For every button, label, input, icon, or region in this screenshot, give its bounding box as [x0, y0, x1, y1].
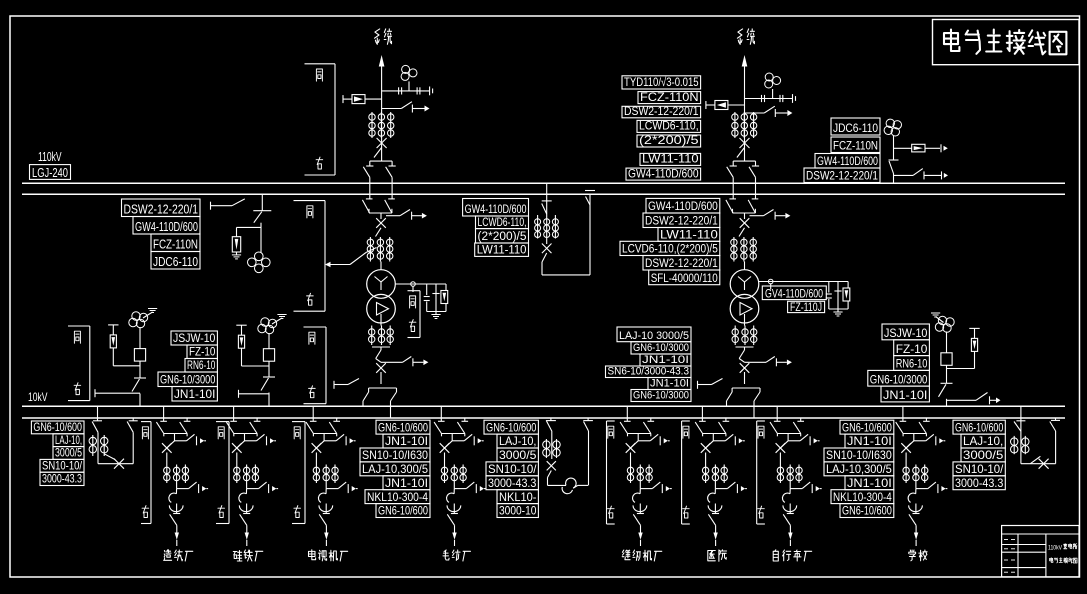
svg-text:JSJW-10: JSJW-10	[173, 331, 216, 345]
feeder yiyuan: breaker	[701, 441, 714, 465]
svg-text:LCVD6-110,(2*200)/5: LCVD6-110,(2*200)/5	[622, 242, 718, 256]
feeder dianshijichang: label dianshijichang	[309, 550, 316, 560]
svg-text:DSW2-12-220/1: DSW2-12-220/1	[645, 214, 718, 228]
feeder guitiechang: CTs 3x2	[234, 465, 240, 484]
feeder zixingchechang: label zixingchechang	[773, 550, 778, 561]
feeder guitiechang: outgoing arrow	[245, 533, 249, 547]
PT10-1: windings	[129, 312, 148, 328]
svg-text:GN6-10/600: GN6-10/600	[378, 504, 428, 518]
svg-text:3000-10: 3000-10	[499, 504, 537, 518]
PT10-1: surge arrester	[108, 325, 140, 366]
feeder zixingchechang: earthing switch 2	[789, 483, 791, 489]
left coupler CTs	[89, 435, 96, 456]
T1: delta winding	[367, 294, 396, 323]
feeder zixingchechang: outgoing arrow	[788, 533, 792, 547]
middle coupler right leg	[583, 418, 593, 485]
feeder bay dianshijichang: bus disconnectors	[306, 406, 340, 436]
right 110kV PT earthing switch	[894, 169, 949, 180]
disconnector blade	[374, 148, 382, 158]
bracket 同右 (left incoming bay)	[305, 64, 336, 175]
svg-text:DSW2-12-220/1: DSW2-12-220/1	[124, 202, 199, 217]
maintenance earthing switch	[745, 106, 793, 117]
feeder fengrenjichang: cable termination	[633, 489, 647, 514]
feeder yiyuan: earthing switch 1	[713, 434, 745, 445]
label 系统	[375, 29, 380, 44]
title block tiny row texts	[1004, 540, 1015, 573]
feeder fengrenjichang: link	[637, 434, 639, 441]
left 110kV PT windings	[248, 252, 271, 273]
T1: 110kV breaker	[376, 218, 386, 228]
feeder zixingchechang: breaker	[776, 441, 789, 465]
left 110kV PT bay (x262)	[253, 194, 271, 253]
T2: delta winding	[730, 294, 759, 323]
svg-text:LAJ-10,300/5: LAJ-10,300/5	[826, 462, 892, 476]
bypass link arrow (to left)	[325, 248, 377, 268]
feeder maofangchang: breaker	[440, 441, 453, 465]
feeder bay zaozhichang: bus disconnectors	[156, 406, 190, 436]
svg-text:LW11-110: LW11-110	[642, 152, 699, 166]
feeder guitiechang: link	[244, 434, 246, 441]
svg-text:NKL10-300-4: NKL10-300-4	[833, 490, 892, 504]
svg-text:3000-43.3: 3000-43.3	[955, 476, 1004, 490]
PT10-1: fuse	[134, 327, 145, 378]
svg-text:GW4-110D/600: GW4-110D/600	[648, 199, 718, 213]
T2: 110kV CTs 3x3	[731, 237, 737, 262]
feeder zixingchechang: earthing switch 1	[788, 434, 820, 445]
T2: 10kV bus selector disconnectors	[727, 372, 761, 418]
middle coupler cable terminations	[562, 478, 588, 494]
feeder dianshijichang: outgoing disconnector	[319, 514, 326, 532]
bus sectionalizer breaker	[542, 239, 552, 275]
svg-text:GN6-10/3000: GN6-10/3000	[633, 390, 689, 402]
middle coupler breaker	[547, 461, 566, 485]
T2: terminal bar	[736, 346, 754, 348]
T1: 10kV disconnector and breaker	[376, 347, 381, 362]
label stack LAJ-10 (right transformer 10kV side)	[606, 327, 692, 402]
110kV bus sectionalizer: left leg	[542, 183, 552, 215]
label box FZ-110J (right transformer)	[788, 301, 825, 314]
svg-text:SN10-10/: SN10-10/	[42, 458, 83, 472]
svg-text:110kV: 110kV	[1048, 545, 1063, 552]
svg-text:SN6-10/3000-43.3: SN6-10/3000-43.3	[608, 366, 690, 378]
feeder zaozhichang: label zaozhichang	[164, 550, 172, 561]
bracket 同右 (feeder 自行车厂)	[757, 421, 765, 524]
T2: earthing switch right	[745, 210, 791, 220]
T2: 10kV CTs 3x2	[732, 326, 738, 346]
feeder maofangchang: cable termination	[447, 489, 461, 514]
feeder zixingchechang: CTs 3x2	[777, 465, 783, 484]
feeder fengrenjichang: breaker	[626, 441, 639, 465]
label 系统	[737, 29, 742, 44]
current transformers 3x3	[732, 112, 738, 138]
system incoming arrow	[379, 55, 385, 67]
label stack JSJW-10 (right 10kV PT)	[868, 324, 930, 402]
T2: 110kV breaker	[740, 218, 750, 228]
T1: 10kV bus selector disconnectors	[363, 372, 397, 418]
feeder dianshijichang: CTs 3x2	[313, 465, 319, 484]
svg-text:GN6-10/3000: GN6-10/3000	[633, 342, 689, 354]
T2: star winding	[730, 270, 759, 299]
feeder maofangchang: link	[451, 434, 453, 441]
label stack TYD110 (right incoming line)	[622, 75, 701, 180]
disconnector blade	[737, 148, 745, 158]
svg-text:FCZ-110N: FCZ-110N	[153, 237, 198, 252]
line PT winding cluster	[765, 73, 781, 88]
feeder bay fengrenjichang: bus disconnectors	[620, 406, 654, 436]
feeder yiyuan: CTs 3x2	[702, 465, 708, 484]
feeder zaozhichang: outgoing disconnector	[170, 514, 177, 532]
10kV bus B	[22, 417, 1065, 419]
feeder zixingchechang: cable termination	[782, 489, 796, 514]
feeder guitiechang: label guitiechang	[233, 551, 242, 562]
svg-text:JN1-10I: JN1-10I	[385, 476, 428, 490]
svg-text:LAJ-10 3000/5: LAJ-10 3000/5	[619, 330, 689, 342]
feeder fengrenjichang: earthing switch 1	[638, 434, 670, 445]
feeder dianshijichang: earthing switch 2	[325, 483, 327, 489]
feeder bay guitiechang: bus disconnectors	[226, 406, 260, 436]
feeder maofangchang: earthing switch 2	[453, 483, 455, 489]
svg-text:JN1-10I: JN1-10I	[385, 434, 428, 448]
feeder zaozhichang: CTs 3x2	[164, 465, 170, 484]
middle 10kV coupler with cable link	[546, 418, 556, 459]
PT10-3: disconnector to bus	[939, 383, 953, 406]
T1: 110kV bus disconnectors	[362, 199, 394, 213]
label stack GW4/DSW2/LW11/LCVD/SFL (right transformer 110kV side)	[620, 198, 720, 285]
svg-text:FCZ-110N: FCZ-110N	[833, 139, 878, 153]
svg-text:GW4-110D/600: GW4-110D/600	[135, 219, 198, 234]
feeder bay yiyuan: bus disconnectors	[695, 406, 729, 436]
svg-text:NKL10-: NKL10-	[499, 490, 536, 504]
T2: link to winding	[744, 262, 746, 271]
label stack DSW2/GW4/FCZ/JDC6 (left 110kV PT bay)	[122, 199, 201, 269]
feeder maofangchang: CTs 3x2	[441, 465, 447, 484]
T1: neutral ground	[427, 312, 446, 315]
surge arrester FCZ-110N	[706, 101, 745, 110]
feeder yiyuan: outgoing disconnector	[708, 514, 715, 532]
svg-text:SN10-10/: SN10-10/	[488, 462, 537, 476]
PT10-3: windings	[935, 316, 954, 332]
bracket 同右 (feeder 电视机厂)	[292, 422, 305, 524]
bracket 同右 (feeder 硅铁厂)	[216, 422, 229, 524]
bracket 同右 (feeder 医院)	[682, 421, 690, 524]
feeder bay maofangchang: bus disconnectors	[434, 406, 468, 436]
label box GV4-110D/600 (right transformer)	[762, 286, 826, 300]
label stack JSJW-10 (left 10kV PT)	[158, 331, 217, 401]
label stack GN6/JN1/SN10 (feeder group right)	[824, 420, 894, 518]
circuit breaker	[377, 138, 387, 148]
right coupler CTs	[1011, 436, 1018, 454]
PT10-3: surge arrester	[947, 328, 980, 368]
PT10-2: earthing switch	[239, 390, 270, 398]
feeder zaozhichang: breaker	[162, 441, 175, 465]
feeder maofangchang: label maofangchang	[443, 550, 449, 560]
svg-text:LW11-110: LW11-110	[660, 228, 718, 242]
svg-text:TYD110/√3-0.015: TYD110/√3-0.015	[624, 75, 699, 89]
PT10-2: surge arrester	[236, 325, 269, 366]
feeder guitiechang: breaker	[232, 441, 245, 465]
feeder xuexiao: earthing switch 1	[914, 434, 946, 445]
T1: link to winding	[380, 262, 382, 271]
feeder xuexiao: link	[913, 434, 915, 441]
T2: neutral link	[759, 279, 848, 289]
PT10-2: fuse	[263, 333, 274, 377]
feeder guitiechang: earthing switch 2	[246, 483, 248, 489]
label stack GN6/LAJ/SN10 (right 10kV coupler)	[953, 420, 1005, 490]
title block table	[1002, 526, 1079, 577]
label box LGJ-240	[30, 165, 71, 180]
T2: disconnector	[739, 228, 745, 237]
svg-text:JN1-10I: JN1-10I	[883, 388, 927, 402]
middle coupler CTs	[543, 439, 550, 458]
PT10-1: ground link	[143, 312, 153, 318]
svg-text:SFL-40000/110: SFL-40000/110	[651, 271, 718, 285]
svg-text:GV4-110D/600: GV4-110D/600	[765, 286, 823, 300]
svg-text:FZ-10: FZ-10	[896, 342, 928, 356]
feeder dianshijichang: link	[323, 434, 325, 441]
T1: terminal bar	[372, 346, 390, 348]
feeder fengrenjichang: CTs 3x2	[627, 465, 633, 484]
110kV bus A	[22, 182, 1065, 184]
incoming line	[381, 66, 383, 161]
svg-text:NKL10-300-4: NKL10-300-4	[367, 490, 428, 504]
feeder bay zixingchechang: bus disconnectors	[770, 406, 804, 436]
title box 电气主接线图	[933, 20, 1080, 65]
label stack GW4/LCWD6/LW11 (bus coupler left)	[463, 199, 529, 257]
bracket 同右 (left 110kV PT)	[294, 201, 326, 312]
feeder dianshijichang: outgoing arrow	[324, 533, 328, 547]
system incoming arrow	[742, 55, 748, 67]
bus selector disconnectors	[727, 161, 759, 199]
coupling capacitor branch with PT	[745, 89, 796, 103]
label stack GN6/JN1/SN10 (feeder group left)	[360, 420, 430, 518]
PT10-3: fuse	[941, 332, 952, 384]
svg-text:RN6-10: RN6-10	[896, 357, 928, 371]
label stack GN6/LAJ/SN10 (left 10kV coupler)	[31, 420, 84, 486]
current transformers 3x3	[369, 112, 375, 138]
feeder dianshijichang: cable termination	[318, 489, 332, 514]
svg-text:JN1-10I: JN1-10I	[847, 476, 892, 490]
feeder xuexiao: CTs 3x2	[903, 465, 909, 484]
bracket 同右 (10kV PT2)	[304, 327, 327, 404]
feeder zixingchechang: outgoing disconnector	[783, 514, 790, 532]
svg-text:GN6-10/600: GN6-10/600	[842, 420, 892, 434]
coupling capacitor branch with PT	[382, 81, 433, 95]
svg-text:JN1-10I: JN1-10I	[174, 387, 215, 401]
svg-text:DSW2-12-220/1: DSW2-12-220/1	[624, 104, 699, 118]
feeder maofangchang: outgoing arrow	[452, 533, 456, 547]
svg-text:GW4-110D/600: GW4-110D/600	[817, 154, 878, 168]
line PT winding cluster	[401, 65, 417, 80]
feeder xuexiao: breaker	[901, 441, 914, 465]
feeder maofangchang: outgoing disconnector	[447, 514, 454, 532]
feeder fengrenjichang: label fengrenjichang	[622, 550, 630, 560]
feeder guitiechang: outgoing disconnector	[240, 514, 247, 532]
right 110kV PT surge arrester branch	[894, 144, 948, 152]
T1: 10kV CTs 3x2	[369, 326, 375, 346]
feeder yiyuan: earthing switch 2	[714, 483, 716, 489]
svg-text:JSJW-10: JSJW-10	[884, 326, 928, 340]
svg-text:LGJ-240: LGJ-240	[32, 165, 68, 180]
left 10kV bus coupler	[92, 406, 138, 464]
svg-text:GN6-10/3000: GN6-10/3000	[870, 372, 928, 386]
PT10-3: ground link	[936, 317, 944, 323]
10kV bus A	[22, 405, 1065, 407]
title block drawing name	[1048, 544, 1077, 563]
svg-text:FZ-110J: FZ-110J	[790, 302, 822, 314]
svg-text:LAJ-10,: LAJ-10,	[499, 434, 536, 448]
svg-text:GN6-10/3000: GN6-10/3000	[160, 373, 216, 387]
T1: earthing switch 10kV	[381, 357, 428, 367]
label stack JDC6/FCZ/GW4/DSW2 (right 110kV PT bay)	[804, 118, 880, 183]
right 10kV bus coupler	[1014, 406, 1025, 464]
feeder dianshijichang: earthing switch 1	[324, 434, 356, 445]
maintenance earthing switch	[382, 102, 430, 113]
feeder dianshijichang: breaker	[312, 441, 325, 465]
feeder yiyuan: link	[712, 434, 714, 441]
svg-text:RN6-10: RN6-10	[187, 358, 216, 372]
right coupler breaker	[1021, 418, 1060, 469]
feeder yiyuan: outgoing arrow	[713, 533, 717, 547]
bus sectionalizer CTs	[535, 215, 541, 239]
svg-text:LW11-110: LW11-110	[477, 243, 527, 257]
feeder zixingchechang: link	[787, 434, 789, 441]
T1: neutral link	[395, 282, 446, 292]
feeder xuexiao: label xuexiao	[909, 550, 916, 561]
T2: earthing switch left of bus entry	[698, 379, 723, 389]
T1: neutral disconnector drop	[424, 284, 430, 312]
svg-text:3000-43.3: 3000-43.3	[42, 472, 82, 486]
feeder fengrenjichang: outgoing arrow	[638, 533, 642, 547]
PT10-1: earthing switch	[95, 389, 140, 397]
svg-text:DSW2-12-220/1: DSW2-12-220/1	[806, 169, 878, 183]
feeder xuexiao: cable termination	[908, 489, 922, 514]
svg-text:JN1-10I: JN1-10I	[650, 378, 689, 390]
bracket 同右 (feeder 缝纫机厂)	[607, 421, 615, 524]
T1: star winding	[367, 270, 396, 299]
svg-text:(2*200)/5: (2*200)/5	[478, 229, 527, 243]
svg-text:110kV: 110kV	[38, 150, 62, 164]
feeder xuexiao: outgoing disconnector	[909, 514, 916, 532]
surge arrester FCZ-110N	[343, 95, 382, 104]
circuit breaker	[740, 138, 750, 148]
T2: neutral disconnector drop	[826, 282, 832, 310]
feeder guitiechang: cable termination	[239, 489, 253, 514]
PT10-1: disconnector to bus	[132, 378, 146, 406]
T2: neutral surge arrester	[843, 282, 850, 310]
svg-text:FCZ-110N: FCZ-110N	[640, 90, 699, 104]
T1: 110kV CTs 3x3	[367, 237, 373, 262]
feeder yiyuan: label yiyuan	[708, 551, 716, 561]
feeder zaozhichang: earthing switch 2	[176, 483, 178, 489]
bracket 同右 (10kV PT1)	[68, 326, 90, 401]
feeder xuexiao: earthing switch 2	[915, 483, 917, 489]
left 110kV PT earthing switch	[211, 199, 245, 210]
incoming line	[744, 66, 746, 161]
svg-text:FZ-10: FZ-10	[189, 345, 216, 359]
feeder fengrenjichang: earthing switch 2	[639, 483, 641, 489]
svg-text:LCWD6-110,: LCWD6-110,	[478, 215, 527, 229]
bracket 同右 (T1 neutral)	[408, 291, 421, 338]
T2: neutral ground	[829, 309, 848, 312]
T2: earthing switch 10kV	[745, 357, 792, 367]
label stack GN6/LAJ/NKL (middle 10kV coupler)	[484, 420, 538, 518]
T1: neutral surge arrester	[441, 284, 448, 312]
110kV bus B	[22, 193, 1065, 195]
svg-text:GN6-10/600: GN6-10/600	[486, 420, 537, 434]
svg-text:GW4-110D/600: GW4-110D/600	[628, 166, 699, 180]
PT10-3: earthing switch	[947, 393, 1001, 405]
right 110kV PT bay (x893)	[884, 119, 901, 136]
feeder xuexiao: outgoing arrow	[914, 533, 918, 547]
left coupler breaker	[98, 454, 133, 469]
T2: neutral CT drop	[834, 282, 841, 310]
T1: earthing switch right	[381, 210, 427, 220]
svg-text:JDC6-110: JDC6-110	[833, 121, 878, 135]
PT10-2: windings	[258, 318, 277, 334]
svg-text:LAJ-10,300/5: LAJ-10,300/5	[362, 462, 428, 476]
feeder yiyuan: cable termination	[708, 489, 722, 514]
svg-text:3000/5: 3000/5	[499, 448, 537, 462]
PT10-2: ground link	[272, 318, 282, 324]
svg-text:LCWD6-110,: LCWD6-110,	[639, 119, 699, 133]
svg-text:JN1-10I: JN1-10I	[642, 354, 689, 366]
svg-text:DSW2-12-220/1: DSW2-12-220/1	[645, 256, 718, 270]
svg-text:GN6-10/600: GN6-10/600	[378, 420, 428, 434]
bus sectionalizer U-link and right leg	[542, 191, 595, 275]
T2: 110kV bus disconnectors	[726, 199, 758, 213]
svg-text:SN10-10/I630: SN10-10/I630	[826, 448, 892, 462]
T1: neutral CT drop	[432, 284, 439, 312]
feeder maofangchang: earthing switch 1	[452, 434, 484, 445]
svg-text:GN6-10/600: GN6-10/600	[955, 420, 1004, 434]
svg-text:SN10-10/I630: SN10-10/I630	[362, 448, 428, 462]
feeder zaozhichang: outgoing arrow	[175, 533, 179, 547]
T1: earthing switch left of bus entry	[334, 379, 359, 389]
svg-text:LAJ-10,: LAJ-10,	[963, 434, 1003, 448]
T1: disconnector	[376, 228, 382, 237]
svg-text:SN10-10/: SN10-10/	[955, 462, 1004, 476]
PT10-2: disconnector to bus	[261, 377, 275, 406]
svg-text:JDC6-110: JDC6-110	[153, 254, 198, 269]
svg-text:3000-43.3: 3000-43.3	[488, 476, 537, 490]
T2: 10kV disconnector and breaker	[739, 347, 744, 362]
svg-text:GN6-10/600: GN6-10/600	[842, 504, 892, 518]
feeder zaozhichang: cable termination	[169, 489, 183, 514]
bracket 同右 (feeder 造纸厂)	[141, 422, 151, 524]
svg-text:3000/5: 3000/5	[963, 448, 1004, 462]
feeder bay xuexiao: bus disconnectors	[896, 406, 930, 436]
svg-text:(2*200)/5: (2*200)/5	[639, 133, 699, 147]
feeder fengrenjichang: outgoing disconnector	[633, 514, 640, 532]
feeder guitiechang: earthing switch 1	[245, 434, 277, 445]
svg-text:10kV: 10kV	[28, 390, 48, 404]
feeder zaozhichang: earthing switch 1	[175, 434, 207, 445]
left 110kV PT surge arrester	[232, 227, 261, 255]
svg-text:JN1-10I: JN1-10I	[847, 434, 892, 448]
bus selector disconnectors	[363, 161, 395, 199]
feeder zaozhichang: link	[174, 434, 176, 441]
